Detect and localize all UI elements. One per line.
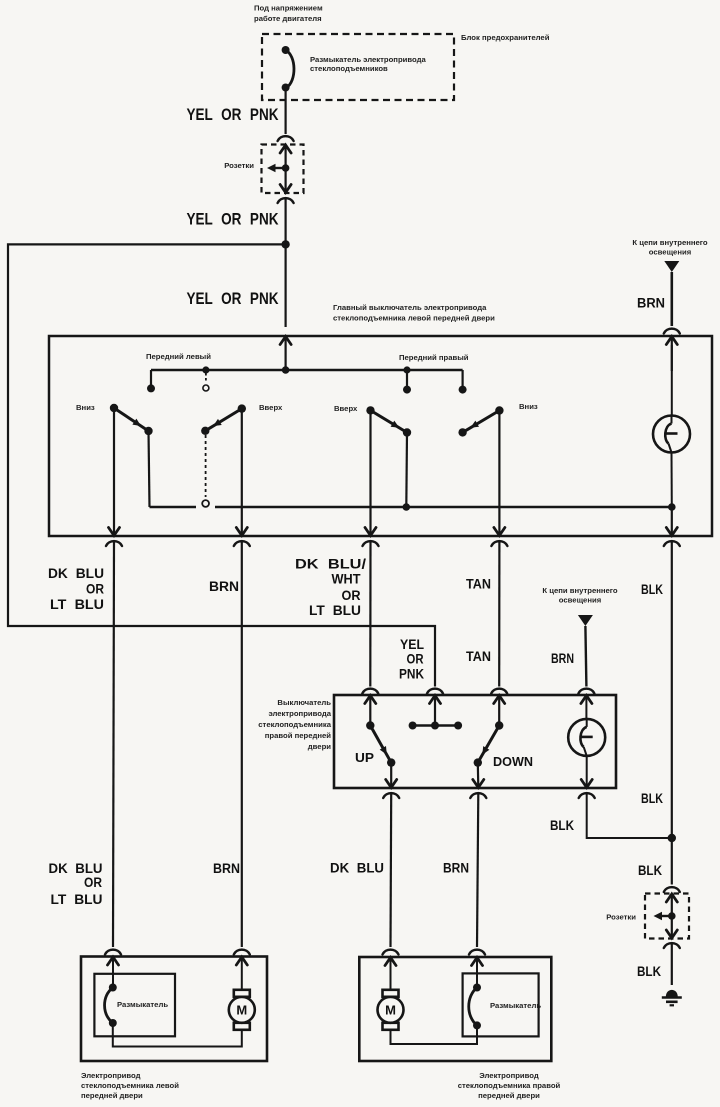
svg-text:BRN: BRN <box>213 861 240 876</box>
connector cap above right motor box (motor feed) <box>383 950 399 955</box>
right motor assembly label <box>458 1071 561 1100</box>
fuse block name label <box>461 33 550 42</box>
wire: BLK ground rail <box>671 541 673 838</box>
off-page triangle symbol (right door) <box>578 615 593 626</box>
svg-text:Блок предохранителей: Блок предохранителей <box>461 33 550 42</box>
wire label TAN (2) <box>466 649 491 664</box>
illumination lamp L2 <box>568 696 605 788</box>
connector C4 female cap <box>664 943 680 948</box>
svg-text:правой передней: правой передней <box>265 731 331 740</box>
wire label BLK (5) <box>637 964 661 979</box>
connector cap above right-door switch (lamp feed) <box>578 689 594 694</box>
svg-text:К цепи внутреннего: К цепи внутреннего <box>632 238 707 247</box>
svg-text:Электропривод: Электропривод <box>81 1071 141 1080</box>
pin arrow out of right-door switch (lamp ground) <box>581 780 592 788</box>
svg-text:стеклоподъемника левой: стеклоподъемника левой <box>81 1081 179 1090</box>
right door switch name label <box>258 698 331 751</box>
svg-text:BLK: BLK <box>638 863 662 878</box>
svg-text:DK BLU/: DK BLU/ <box>295 557 366 572</box>
wire: left breaker to motor (return path) <box>113 1023 242 1047</box>
svg-text:К цепи внутреннего: К цепи внутреннего <box>542 586 617 595</box>
svg-text:Главный выключатель электропри: Главный выключатель электропривода <box>333 303 487 312</box>
wire label DK BLU OR LT BLU (1) <box>48 566 104 612</box>
connector cap below right-door switch (UP output) <box>383 793 399 798</box>
svg-text:OR: OR <box>86 582 104 597</box>
svg-text:DK BLU: DK BLU <box>49 861 103 876</box>
connector cap above right-door switch (DOWN feed) <box>491 689 507 694</box>
right door window switch box <box>334 695 616 788</box>
pin arrow into left motor box (motor feed) <box>236 957 247 965</box>
switch S4 blade (front right down) <box>458 406 503 436</box>
left door motor assembly box <box>81 957 267 1062</box>
left motor breaker inner box <box>94 974 175 1037</box>
master switch name label <box>333 303 495 323</box>
wire: UP feed to pivot <box>369 696 371 726</box>
svg-text:работе двигателя: работе двигателя <box>254 14 322 23</box>
pin arrow into left motor box (breaker feed) <box>108 957 119 965</box>
pin arrow into right-door switch (lamp feed) <box>581 696 592 704</box>
switch S1 blade (front left down) <box>110 404 153 435</box>
wire: lamp/ground bus to BLK output <box>671 507 673 536</box>
pin arrow out of right-door switch (UP output) <box>386 780 397 788</box>
wire: BLK rail to connector C3 <box>671 838 673 885</box>
group label: front left (Передний левый) <box>146 352 211 361</box>
wire label DK BLU/WHT OR LT BLU <box>295 557 366 619</box>
connector cap below right-door switch (DOWN output) <box>470 793 486 798</box>
svg-text:OR: OR <box>342 588 361 603</box>
wire: S2 output <box>241 409 243 536</box>
pin arrow into right motor box (motor feed) <box>385 958 396 966</box>
ground bus node at lamp <box>668 503 676 511</box>
svg-text:BRN: BRN <box>551 651 574 666</box>
connector 2 branch node <box>668 912 676 920</box>
center feed tee bar <box>409 696 463 730</box>
svg-text:TAN: TAN <box>466 577 491 592</box>
svg-text:LT BLU: LT BLU <box>50 597 104 612</box>
wire: S1 output <box>113 408 115 536</box>
note: to interior lighting circuit (top) <box>632 238 707 257</box>
wire label TAN (1) <box>466 577 491 592</box>
connector cap above right-door switch (center feed) <box>427 689 443 694</box>
switch S3 blade (front right up) <box>366 406 411 437</box>
svg-text:стеклоподъемника: стеклоподъемника <box>258 720 331 729</box>
wire label YEL OR PNK (2) <box>187 210 280 229</box>
connector C3 male pin arrow <box>666 894 677 916</box>
off-page triangle symbol (top) <box>664 261 679 272</box>
wire label BLK (4) <box>638 863 662 878</box>
wire: DK BLU run to right motor <box>389 793 392 947</box>
connector block 2 label <box>606 913 636 922</box>
wire: BRN lighting feed to right-door switch <box>585 626 586 687</box>
svg-text:Размыкатель: Размыкатель <box>490 1001 541 1010</box>
connector block 2 (Розетки) dashed box <box>645 894 689 939</box>
wire label YEL OR PNK (1) <box>187 105 280 124</box>
svg-text:DOWN: DOWN <box>493 754 533 769</box>
connector C1 male pin arrow <box>280 145 291 168</box>
wire: BRN run to left motor <box>241 541 243 947</box>
wire: left feed rail to right-door switch <box>8 244 435 686</box>
svg-text:YEL OR PNK: YEL OR PNK <box>187 289 280 308</box>
connector cap above left motor box (breaker feed) <box>105 950 121 955</box>
wire: right breaker to motor (return path) <box>391 1025 478 1044</box>
wire: BRN run to right motor <box>477 793 478 947</box>
wire label BRN (1) <box>209 579 239 594</box>
svg-text:Розетки: Розетки <box>606 913 636 922</box>
bus node B1 with linked contact <box>202 366 209 391</box>
svg-text:Передний левый: Передний левый <box>146 352 211 361</box>
circuit breaker (Размыкатель электропривода стеклоподъемников) <box>282 46 294 92</box>
wire label BRN (top) <box>637 296 665 311</box>
fuse block (Блок предохранителей) dashed box <box>262 34 454 100</box>
svg-text:освещения: освещения <box>559 596 601 605</box>
pin arrow out of right-door switch (DOWN output) <box>473 780 484 788</box>
svg-text:M: M <box>385 1002 396 1017</box>
svg-text:Выключатель: Выключатель <box>277 698 331 707</box>
right circuit breaker (Размыкатель) <box>469 958 481 1030</box>
pin arrow into right-door switch (UP feed) <box>365 696 376 704</box>
svg-text:Вверх: Вверх <box>259 403 283 412</box>
pin arrow: master switch S2 output BRN <box>236 528 247 536</box>
wire label BLK (3) <box>550 818 574 833</box>
svg-text:YEL: YEL <box>400 637 424 652</box>
left window motor M1 <box>229 957 255 1030</box>
illumination lamp L1 <box>653 345 690 507</box>
svg-text:UP: UP <box>355 750 374 765</box>
svg-text:OR: OR <box>407 652 424 667</box>
svg-text:TAN: TAN <box>466 649 491 664</box>
svg-text:Вниз: Вниз <box>519 402 538 411</box>
wire label BLK (2) <box>641 791 663 806</box>
wire label BRN (3) <box>213 861 240 876</box>
svg-text:электропривода: электропривода <box>268 709 331 718</box>
connector cap below right-door switch (lamp ground) <box>579 793 595 798</box>
feed bus wire inside master switch <box>151 369 463 372</box>
connector branch node <box>282 164 290 172</box>
pin arrow into right-door switch (DOWN feed) <box>494 696 505 704</box>
pin arrow: master switch S3 output DK BLU/WHT <box>365 528 376 536</box>
bus left stub contact <box>147 370 155 392</box>
note: to interior lighting circuit (right door) <box>542 586 617 605</box>
switch S1 label (Вниз) <box>76 403 95 412</box>
svg-text:BLK: BLK <box>641 791 663 806</box>
wire: S3 contact to lower bus <box>405 433 408 508</box>
connector cap below master switch at x=370.5 <box>363 541 379 546</box>
svg-text:освещения: освещения <box>649 248 691 257</box>
wire: S5 contact to output <box>390 763 392 788</box>
pin arrow: feed into master switch <box>280 337 291 371</box>
connector cap below master switch at x=499.4 <box>491 541 507 546</box>
connector cap above left motor box (motor feed) <box>234 950 250 955</box>
switch S6 blade (right door down) <box>474 721 504 767</box>
wire: S3 output <box>369 410 371 535</box>
connector C1 female cap <box>278 136 294 141</box>
svg-text:BRN: BRN <box>637 296 665 311</box>
svg-text:двери: двери <box>308 742 331 751</box>
switch S3 label (Вверх) <box>334 404 358 413</box>
wire label YEL OR PNK (3) <box>187 289 280 308</box>
right window motor M2 <box>378 958 404 1030</box>
pin arrow: master switch S4 output TAN <box>494 528 505 536</box>
svg-text:WHT: WHT <box>332 572 362 587</box>
connector cap above right-door switch (UP feed) <box>362 689 378 694</box>
svg-text:Передний правый: Передний правый <box>399 353 469 362</box>
wire: S6 contact to output <box>477 763 480 788</box>
wire: DK BLU run to left motor <box>113 541 114 947</box>
connector branch left pin <box>267 164 286 172</box>
wire: TAN run to right-door switch <box>498 541 500 687</box>
switch label DOWN <box>493 754 533 769</box>
wire: lighting feed BRN <box>670 272 673 326</box>
svg-text:YEL OR PNK: YEL OR PNK <box>187 105 280 124</box>
chassis ground symbol <box>662 990 682 1005</box>
svg-text:BRN: BRN <box>209 579 239 594</box>
wire: S1 contact to lower bus <box>149 431 150 507</box>
connector cap below master switch at x=114 <box>106 541 122 546</box>
note: hot with engine running label <box>254 4 323 24</box>
connector cap above right motor box (breaker feed) <box>469 950 485 955</box>
wire: DK BLU/WHT run to right-door switch <box>369 541 371 687</box>
wire: breaker to connector C1 <box>285 88 287 135</box>
svg-text:Вниз: Вниз <box>76 403 95 412</box>
svg-text:BRN: BRN <box>443 861 469 876</box>
wire: S4 output <box>498 411 500 536</box>
dashed link: S2 contact to lower bus contact <box>202 435 209 507</box>
svg-text:Розетки: Розетки <box>224 161 254 170</box>
bus node at feed entry <box>282 366 290 374</box>
ground bus wire inside master switch <box>150 506 672 508</box>
svg-text:Электропривод: Электропривод <box>479 1071 539 1080</box>
wire: connector to ground <box>671 943 673 985</box>
wire label BRN (2) <box>551 651 574 666</box>
left breaker label <box>117 1000 168 1009</box>
junction on BLK rail <box>668 834 676 842</box>
wire: lamp ground BLK to rail junction <box>587 793 672 838</box>
wire label BRN (4) <box>443 861 469 876</box>
connector cap below master switch at x=671.8 <box>664 541 680 546</box>
junction A (splice) <box>281 240 289 248</box>
bus node B2 with stub contact <box>403 366 411 393</box>
wire: connector to junction A <box>285 198 287 244</box>
left circuit breaker (Размыкатель) <box>105 957 117 1027</box>
svg-text:стеклоподъемника правой: стеклоподъемника правой <box>458 1081 561 1090</box>
bus right stub contact <box>459 370 467 394</box>
svg-text:M: M <box>236 1002 247 1017</box>
svg-text:BLK: BLK <box>637 964 661 979</box>
connector cap at master switch BRN entry <box>664 329 680 334</box>
breaker value label <box>310 55 426 73</box>
wire label DK BLU (2) <box>330 861 384 876</box>
pin arrow into right-door switch (center feed) <box>430 696 441 704</box>
svg-text:OR: OR <box>84 875 102 890</box>
ground bus node at S3 <box>403 503 411 511</box>
switch S2 label (Вверх) <box>259 403 283 412</box>
svg-text:LT BLU: LT BLU <box>51 892 103 907</box>
svg-text:PNK: PNK <box>399 667 424 682</box>
svg-text:стеклоподъемников: стеклоподъемников <box>310 64 388 73</box>
svg-text:Размыкатель: Размыкатель <box>117 1000 168 1009</box>
svg-text:BLK: BLK <box>550 818 574 833</box>
svg-text:YEL OR PNK: YEL OR PNK <box>187 210 280 229</box>
svg-text:Вверх: Вверх <box>334 404 358 413</box>
pin arrow: master switch ground output BLK <box>666 528 677 536</box>
right breaker label <box>490 1001 541 1010</box>
connector 2 branch left pin <box>654 912 672 920</box>
wire: DOWN feed to pivot <box>498 696 500 726</box>
switch S5 blade (right door up) <box>366 721 395 767</box>
left motor assembly label <box>81 1071 179 1100</box>
right motor breaker inner box <box>463 973 539 1036</box>
svg-text:Размыкатель электропривода: Размыкатель электропривода <box>310 55 426 64</box>
right door motor assembly box <box>359 957 551 1061</box>
svg-text:Под напряжением: Под напряжением <box>254 4 323 13</box>
switch S2 blade (front left up) <box>201 404 246 435</box>
master window switch box (Главный выключатель) <box>49 336 712 536</box>
svg-text:передней двери: передней двери <box>478 1091 540 1100</box>
svg-text:стеклоподъемника левой передне: стеклоподъемника левой передней двери <box>333 314 495 323</box>
connector block (Розетки) dashed box <box>262 145 304 194</box>
switch S4 label (Вниз) <box>519 402 538 411</box>
connector C2 male pin arrow <box>280 168 291 193</box>
pin arrow: master switch S1 output DK BLU <box>109 528 120 536</box>
switch label UP <box>355 750 374 765</box>
wire: junction A to master switch <box>285 244 287 327</box>
connector C3 female cap <box>664 887 680 892</box>
pin arrow: BRN into master switch <box>666 337 677 372</box>
svg-text:BLK: BLK <box>641 582 663 597</box>
group label: front right (Передний правый) <box>399 353 469 362</box>
connector C2 female cap <box>278 198 294 203</box>
svg-text:DK BLU: DK BLU <box>48 566 104 581</box>
connector C4 male pin arrow <box>666 916 677 938</box>
wire label BLK (1) <box>641 582 663 597</box>
connector cap below master switch at x=241.8 <box>234 541 250 546</box>
connector block label <box>224 161 254 170</box>
wire label DK BLU OR LT BLU (2) <box>49 861 103 907</box>
svg-text:LT BLU: LT BLU <box>309 603 361 618</box>
svg-text:DK BLU: DK BLU <box>330 861 384 876</box>
wire label YEL OR PNK (4) <box>399 637 424 682</box>
svg-text:передней двери: передней двери <box>81 1091 143 1100</box>
pin arrow into right motor box (breaker feed) <box>472 958 483 966</box>
